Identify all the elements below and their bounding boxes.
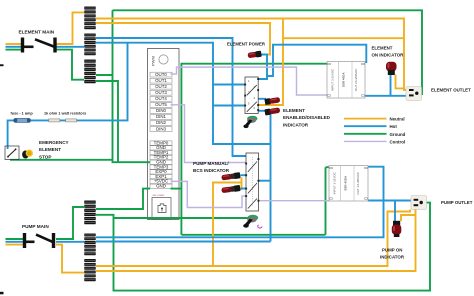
- svg-text:OUT1: OUT1: [155, 78, 167, 83]
- svg-text:INDICATOR: INDICATOR: [380, 255, 405, 260]
- svg-text:Control: Control: [390, 139, 406, 144]
- svg-text:INPUT 3-32VDC: INPUT 3-32VDC: [331, 68, 335, 91]
- toggle switch clipart (pump): [243, 215, 262, 228]
- wire: lamp1 enabled stub: [258, 98, 266, 100]
- wire: dpdt1 left-bottom stub: [213, 105, 245, 107]
- indicator lamp: pump on: [392, 221, 402, 237]
- svg-text:ENABLED/DISABLED: ENABLED/DISABLED: [283, 115, 331, 120]
- indicator lamp: element on: [386, 62, 397, 75]
- wire: hot trunk2 riser and mid link: [96, 43, 271, 144]
- page edge marks: [0, 64, 4, 66]
- wire: pump main switch to group6: [56, 245, 84, 273]
- wire: pump main ground feed: [6, 238, 24, 240]
- svg-text:ELEMENT MAIN: ELEMENT MAIN: [19, 30, 55, 35]
- controller pin rows: [150, 72, 172, 189]
- svg-text:EMERGENCY: EMERGENCY: [39, 140, 69, 145]
- wire: ssr2 ground riser: [326, 167, 330, 235]
- svg-text:Hot: Hot: [390, 124, 398, 129]
- wire: pump on lamp hot: [394, 201, 396, 222]
- wire: neutral trunk2 to element power lamp: [96, 23, 270, 55]
- indicator lamp: element enabled 1: [264, 97, 280, 106]
- wire: hot feed left (element main): [6, 46, 22, 48]
- svg-text:OUT2: OUT2: [155, 84, 167, 89]
- wire: element on lamp neutral: [396, 75, 405, 89]
- svg-text:ELEMENT: ELEMENT: [283, 108, 305, 113]
- SSR2 solid state relay (pump): [329, 166, 368, 202]
- svg-text:Neutral: Neutral: [390, 117, 405, 122]
- breaker switch SW1 ELEMENT MAIN: [21, 38, 56, 52]
- wire: din sense line with fuse and resistors: [8, 43, 128, 149]
- wire: emergency stop ground: [10, 159, 113, 161]
- wire: pump main switch to group5: [56, 241, 84, 243]
- wire: pump toggle ground: [114, 217, 251, 219]
- dpdt switch S1 (element enable): [244, 77, 259, 114]
- usb port box: [152, 194, 171, 219]
- WIRES-BLUE: [6, 38, 412, 242]
- toggle switch clipart (element): [243, 116, 257, 128]
- fuse F1: [14, 118, 31, 122]
- svg-text:fuse - 1 amp: fuse - 1 amp: [11, 111, 34, 115]
- wire: pump lamps bus: [241, 178, 243, 191]
- svg-text:PUMP ON: PUMP ON: [382, 248, 402, 253]
- svg-text:INDICATOR: INDICATOR: [283, 123, 309, 128]
- emergency stop button icon: [22, 150, 33, 159]
- wire: control pump dpdt to ssr2: [259, 200, 330, 202]
- element outlet: [406, 87, 422, 101]
- indicator lamp: element power: [247, 51, 261, 59]
- svg-text:STOP: STOP: [39, 154, 51, 159]
- dpdt switch S2 (pump manual/bcs): [245, 153, 259, 211]
- wire: neutral branch to outlet riser: [283, 37, 404, 39]
- terminal block group4 (ground bottom): [84, 201, 95, 225]
- svg-text:SSR 40DA: SSR 40DA: [342, 72, 346, 88]
- svg-text:GND: GND: [156, 184, 166, 189]
- svg-text:OUT 24-380VAC: OUT 24-380VAC: [354, 68, 358, 91]
- terminal block group6 (neutral bottom): [84, 259, 95, 281]
- wire: pump hot bottom trunk2: [96, 241, 271, 243]
- wire: ssr2 output to pump outlet: [368, 200, 411, 202]
- wire: element on lamp hot: [390, 75, 392, 96]
- svg-text:ELEMENT POWER: ELEMENT POWER: [227, 42, 266, 47]
- indicator lamp: pump manual 1: [221, 172, 240, 181]
- wire: group3 stub: [96, 74, 113, 76]
- pump outlet: [411, 196, 427, 210]
- wire: pump hot bottom trunk1 to ssr2: [96, 167, 384, 238]
- wire: ssr1 output to element outlet: [365, 95, 406, 97]
- terminal block group5 (hot bottom): [84, 234, 95, 256]
- svg-text:DIN0: DIN0: [156, 108, 167, 113]
- svg-text:DIN1: DIN1: [156, 114, 167, 119]
- wire: pump neutral trunk A to pump outlet: [96, 210, 410, 267]
- legend: [344, 117, 406, 145]
- wire: ground feed left (element main): [6, 49, 22, 51]
- SSR1 solid state relay (element): [327, 62, 365, 99]
- svg-text:PUMP MANUAL/: PUMP MANUAL/: [193, 161, 229, 166]
- svg-text:OUT3: OUT3: [155, 90, 167, 95]
- svg-text:Ground: Ground: [390, 132, 406, 137]
- emergency stop switch box: [5, 146, 19, 160]
- svg-text:BCS INDICATOR: BCS INDICATOR: [193, 168, 230, 173]
- terminal block group1 (neutral top): [84, 7, 95, 30]
- wire: group3 second stub: [96, 81, 118, 162]
- svg-text:OUT5: OUT5: [155, 102, 167, 107]
- svg-text:ELEMENT: ELEMENT: [372, 46, 393, 51]
- svg-text:PUMP OUTLET: PUMP OUTLET: [441, 200, 473, 205]
- resistor R2 1k ohm: [66, 119, 77, 122]
- wire: lamp riser to ssr1 feed: [267, 45, 366, 76]
- wire: pump ground loop to pump outlet: [96, 203, 430, 291]
- svg-text:ON INDICATOR: ON INDICATOR: [372, 53, 405, 58]
- wire: gnd pin right stub: [171, 188, 182, 190]
- wire: hot element main switch to group2: [56, 46, 84, 48]
- wire: pump main hot feed: [6, 241, 24, 243]
- svg-text:DIN2: DIN2: [156, 120, 167, 125]
- indicator lamp: pump bcs 2: [221, 185, 240, 194]
- wire: neutral trunk1 from group1 to element outlet: [96, 19, 407, 91]
- wire: hot trunk1 to pump dpdt: [96, 38, 246, 156]
- wire: gnd pin left to group4: [96, 189, 150, 209]
- svg-text:OUT0: OUT0: [155, 72, 167, 77]
- svg-text:aux. power: aux. power: [153, 194, 165, 197]
- wire: pump lamp2 stub: [241, 188, 247, 190]
- wire: neutral element main switch to terminal group1: [56, 12, 84, 44]
- wire: pump neutral trunk B to pump outlet: [96, 210, 416, 272]
- wire: bottom ground trunk to ssr2: [181, 234, 325, 236]
- svg-text:ELEMENT: ELEMENT: [39, 147, 61, 152]
- wire: pump manual lamps neutral riser: [213, 183, 242, 267]
- svg-text:PWM: PWM: [151, 56, 156, 66]
- wire: pump on lamp neutral link: [401, 215, 416, 221]
- WIRES-YELLOW: [6, 12, 416, 272]
- wire: neutral branch y40: [258, 19, 283, 106]
- wire: pump main feed left: [6, 244, 24, 246]
- wire: control out5 to pump dpdt: [171, 105, 247, 163]
- wire: ground trunk top to element outlet: [113, 10, 423, 94]
- wire: pump dpdt right stub: [259, 180, 271, 182]
- controller box U1: [148, 49, 180, 220]
- svg-text:OUT4: OUT4: [155, 96, 167, 101]
- svg-text:DIN3: DIN3: [156, 126, 167, 131]
- breaker switch SW2 PUMP MAIN: [23, 234, 54, 248]
- wire: control out0 to ssr1: [171, 67, 328, 95]
- svg-text:ELEMENT OUTLET: ELEMENT OUTLET: [431, 87, 471, 92]
- WIRES-LAVENDER: [171, 67, 330, 207]
- svg-text:INPUT 3-32VDC: INPUT 3-32VDC: [333, 171, 337, 194]
- terminal block group2 (hot top): [84, 34, 95, 56]
- wire: mid riser x270: [270, 110, 272, 242]
- terminal block group3 (ground top): [84, 60, 95, 84]
- wire: dpdt1 left-top stub: [213, 84, 245, 86]
- wire: ground element main switch to group3: [56, 50, 84, 80]
- svg-text:SSR 40DA: SSR 40DA: [344, 175, 348, 191]
- wire: pump lamp1 stub: [241, 174, 247, 176]
- wire: controller ground to ssr1: [181, 64, 327, 235]
- svg-text:OUT 24-380VAC: OUT 24-380VAC: [356, 171, 360, 194]
- wire: control +5vdc to pump dpdt: [171, 181, 247, 207]
- svg-text:1k ohm 1 watt resistors: 1k ohm 1 watt resistors: [44, 111, 86, 115]
- wire: neutral feed left (element main): [6, 43, 22, 45]
- wire: dpdt1 right-bottom stub: [258, 110, 270, 112]
- resistor R1 1k ohm: [49, 119, 60, 122]
- svg-text:PUMP MAIN: PUMP MAIN: [22, 224, 49, 229]
- indicator lamp: element disabled 2: [264, 107, 280, 116]
- wire: dpdt1 to element power lamp: [258, 55, 267, 80]
- wire: group3 riser to controller gnd: [113, 10, 151, 162]
- wire: pump main switch to group4: [56, 207, 84, 239]
